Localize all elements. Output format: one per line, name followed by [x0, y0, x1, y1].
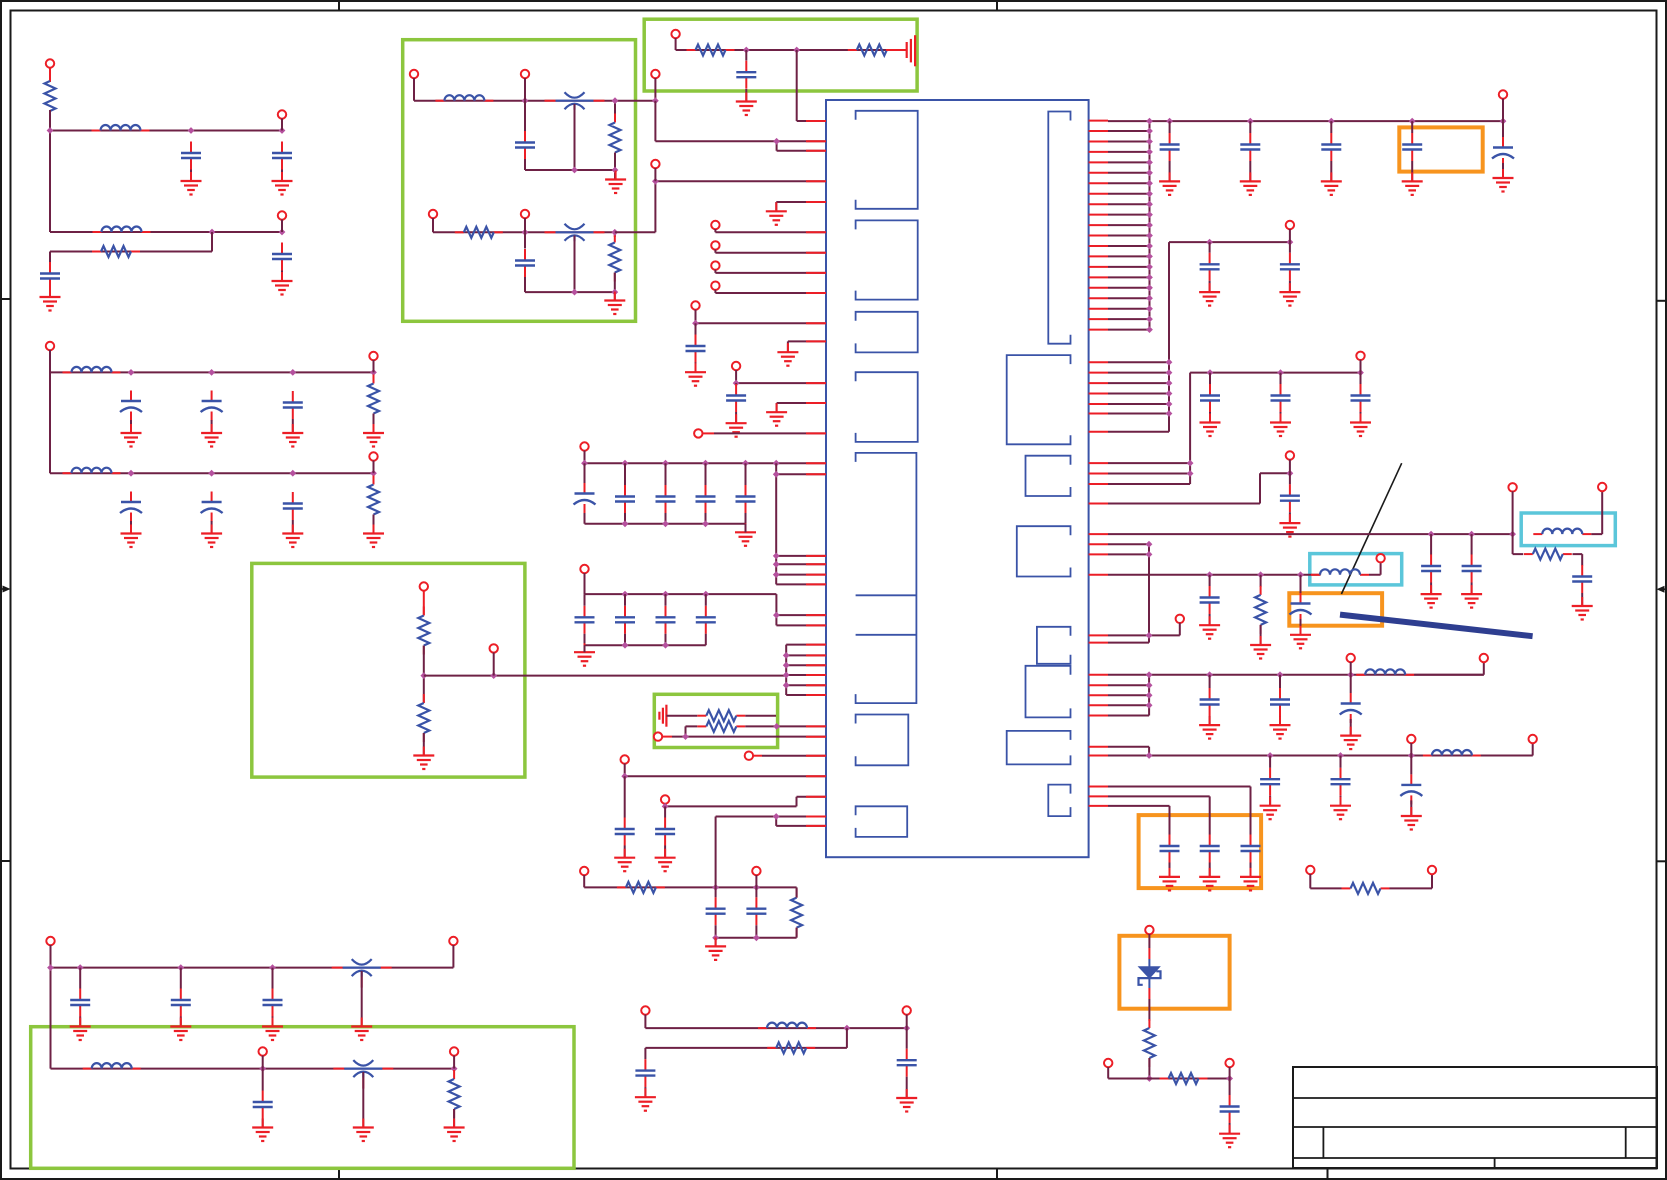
capacitor C15 [726, 384, 746, 412]
IC pin stub (left) [806, 644, 826, 646]
wire [654, 78, 656, 101]
IC pin stub (right) [1089, 361, 1108, 363]
capacitor C29 [635, 1059, 655, 1087]
IC pin stub (right) [1089, 203, 1108, 205]
port P43 [1176, 615, 1184, 623]
IC pin stub (right) [1089, 462, 1108, 464]
capacitor C30 [897, 1049, 917, 1077]
wire [1108, 694, 1149, 696]
node [1146, 541, 1153, 548]
wire [655, 101, 826, 151]
node [622, 591, 629, 598]
wire [664, 806, 666, 817]
node [612, 97, 619, 104]
node [1166, 380, 1173, 387]
ground [655, 849, 676, 872]
IC pin stub (right) [1089, 318, 1108, 320]
wire [1108, 130, 1150, 132]
wire [755, 887, 757, 937]
wire [1169, 863, 1171, 877]
wire [645, 1028, 847, 1059]
IC pin stub (right) [1089, 120, 1108, 122]
wire [614, 153, 616, 180]
capacitor C54 [1260, 768, 1280, 796]
orange highlight box 2 (polar cap) [1289, 593, 1382, 626]
wire [524, 218, 526, 232]
wire [211, 420, 213, 433]
node [571, 167, 578, 174]
node [662, 520, 669, 527]
node [1146, 180, 1153, 187]
zone tick left 1 [1, 298, 11, 300]
port P11 [521, 210, 529, 218]
IC U1 internal block L5 [856, 453, 917, 703]
capacitor C18 [656, 485, 676, 513]
wire [190, 170, 192, 182]
wire [50, 350, 374, 473]
resistor R2 [92, 246, 140, 257]
node [903, 1025, 910, 1032]
ground [726, 414, 747, 437]
wire [1260, 575, 1262, 587]
port P47 [1407, 735, 1415, 743]
capacitor C42 [1200, 384, 1220, 412]
wire [762, 755, 826, 757]
inductor L10 [1356, 669, 1414, 675]
wire (pin bus) [786, 645, 826, 695]
inductor L7 [83, 1063, 141, 1069]
wire [1209, 863, 1211, 877]
ground [121, 525, 142, 548]
wire [1209, 575, 1211, 625]
wire [51, 945, 454, 1069]
wire [574, 236, 576, 293]
wire [1108, 787, 1251, 835]
node [1408, 752, 1415, 759]
ground [1270, 414, 1291, 437]
port P53 [1225, 1059, 1233, 1067]
node [622, 460, 629, 467]
port P24 [490, 644, 498, 652]
ground [635, 1088, 656, 1111]
wire [1229, 1079, 1231, 1134]
ground [121, 424, 142, 447]
node [773, 612, 780, 619]
wire [745, 524, 747, 533]
capacitor C56 (polarized) [1400, 774, 1422, 804]
IC pin stub (left) [806, 180, 826, 182]
node [1409, 118, 1416, 125]
capacitor C43 [1271, 384, 1291, 412]
port P36 [450, 1047, 458, 1055]
node [662, 591, 669, 598]
ground [351, 1018, 372, 1041]
ground [353, 1119, 374, 1142]
node [571, 289, 578, 296]
node [279, 127, 286, 134]
IC pin stub (left) [806, 725, 826, 727]
wire [906, 1028, 908, 1049]
wire [906, 1015, 908, 1029]
wire [1108, 214, 1150, 216]
resistor R10 [418, 607, 429, 655]
green highlight box 1 (LC filters) [403, 40, 636, 322]
IC U1 outline [826, 100, 1089, 857]
IC U1 internal block L5 divider a [856, 594, 917, 596]
IC pin stub (right) [1089, 543, 1108, 545]
ground [181, 172, 202, 195]
node [773, 723, 780, 730]
node [289, 470, 296, 477]
node [1146, 149, 1153, 156]
port P44 [1376, 554, 1384, 562]
port P12 [651, 160, 659, 168]
wire [1108, 151, 1150, 153]
capacitor C27 [706, 897, 726, 925]
capacitor C39 (polarized) [1492, 137, 1514, 167]
IC pin stub (left) [806, 292, 826, 294]
node [1206, 671, 1213, 678]
node [1146, 232, 1153, 239]
wire [423, 733, 425, 756]
node [208, 470, 215, 477]
node [47, 127, 54, 134]
port P9 [651, 70, 659, 78]
capacitor C59 [1241, 835, 1261, 863]
capacitor C35 [1160, 133, 1180, 161]
wire [1108, 413, 1169, 415]
node [451, 1065, 458, 1072]
node [289, 369, 296, 376]
capacitor C9 (polarized) [201, 492, 223, 522]
node [1146, 118, 1153, 125]
node [783, 662, 790, 669]
ground [1401, 807, 1422, 830]
port P30 [752, 867, 760, 875]
ground [70, 1018, 91, 1041]
IC U1 internal block R4 [1017, 526, 1071, 576]
wire [1108, 287, 1150, 289]
wire [1179, 623, 1181, 636]
IC pin stub (left) [806, 555, 826, 557]
wire [614, 101, 616, 116]
wire [1108, 382, 1169, 384]
capacitor C12 [515, 249, 535, 277]
wire [1108, 372, 1169, 374]
node [1146, 702, 1153, 709]
wire [1289, 229, 1291, 242]
wire [584, 875, 796, 887]
IC pin stub (right) [1089, 704, 1108, 706]
title block row line 2 [1293, 1126, 1657, 1128]
wire [262, 1069, 264, 1128]
resistor R3 [368, 375, 379, 423]
node [1468, 531, 1475, 538]
node [662, 460, 669, 467]
wire [715, 290, 826, 293]
capacitor C21 [575, 606, 595, 634]
wire [574, 104, 576, 170]
feedthrough capacitor FT4 [333, 1060, 393, 1089]
wire [755, 875, 757, 887]
node [208, 369, 215, 376]
IC pin stub (right) [1089, 214, 1108, 216]
inductor L8 (cyan box) [1533, 529, 1591, 535]
wire [1108, 704, 1149, 706]
ground stub [788, 341, 826, 352]
node [1146, 138, 1153, 145]
ground [1330, 797, 1351, 820]
port P20 [694, 429, 702, 437]
wire [745, 715, 776, 717]
port P16 [711, 261, 719, 269]
IC U1 internal block L3 [856, 312, 918, 353]
IC pin stub (left) [806, 150, 826, 152]
ground [736, 93, 757, 116]
node [692, 320, 699, 327]
wire [524, 78, 526, 101]
wire [1229, 1067, 1231, 1079]
wire [1108, 242, 1290, 432]
node [1146, 169, 1153, 176]
port P37 [1499, 90, 1507, 98]
wire [1108, 675, 1484, 716]
wire [1360, 373, 1362, 423]
node [773, 471, 780, 478]
wire [1260, 625, 1262, 645]
node [1146, 316, 1153, 323]
node [1146, 682, 1153, 689]
wire [1481, 743, 1533, 756]
IC pin stub (left) [806, 462, 826, 464]
feedthrough capacitor FT3 [332, 959, 392, 988]
node [753, 934, 760, 941]
ground [777, 343, 798, 366]
capacitor C46 [1421, 555, 1441, 583]
wire [1148, 1014, 1150, 1021]
IC U1 internal block L5 divider b [856, 634, 917, 636]
node [622, 642, 629, 649]
ground [170, 1018, 191, 1041]
wire [1108, 297, 1150, 299]
port P35 [259, 1047, 267, 1055]
wire [1502, 99, 1504, 122]
green highlight box 4 (bias resistors) [654, 694, 777, 747]
IC pin stub (left) [806, 382, 826, 384]
ground [282, 424, 303, 447]
IC pin stub (left) [806, 654, 826, 656]
resistor R19 [1255, 586, 1266, 634]
wire [1108, 318, 1150, 320]
port P14 [711, 221, 719, 229]
resistor R15 [791, 889, 802, 937]
IC pin stub (right) [1089, 755, 1108, 757]
capacitor C17 [615, 485, 635, 513]
resistor R18 [1524, 549, 1572, 560]
capacitor C25 [615, 818, 635, 846]
title block outline [1293, 1067, 1657, 1168]
resistor R13 [697, 721, 745, 732]
wire [1108, 373, 1361, 484]
wire [1108, 361, 1169, 363]
ground [1340, 727, 1361, 750]
wire [1108, 806, 1170, 835]
node [370, 369, 377, 376]
wire (bottom rail) [585, 644, 706, 646]
node [128, 470, 135, 477]
IC pin stub (right) [1089, 193, 1108, 195]
zone tick bottom 2 [996, 1169, 998, 1180]
wire [1108, 329, 1150, 331]
centre arrow left [1, 588, 7, 590]
IC pin stub (left) [806, 684, 826, 686]
wire [1108, 182, 1150, 184]
resistor R9 [848, 45, 896, 56]
wire [672, 726, 826, 736]
capacitor C47 [1462, 555, 1482, 583]
ground [766, 403, 787, 426]
wire [614, 232, 616, 237]
IC pin stub (right) [1089, 786, 1108, 788]
ground [1270, 716, 1291, 739]
wire [1340, 756, 1342, 806]
node [1509, 531, 1516, 538]
node [612, 167, 619, 174]
resistor R4 [368, 476, 379, 524]
capacitor C2 [272, 142, 292, 170]
port P15 [711, 241, 719, 249]
ground [413, 747, 434, 770]
node [1146, 222, 1153, 229]
IC pin stub (left) [806, 473, 826, 475]
wire [1209, 373, 1211, 423]
wire [1269, 756, 1271, 806]
node [370, 470, 377, 477]
node [662, 803, 669, 810]
node [1146, 264, 1153, 271]
port P19 [732, 362, 740, 370]
node [1146, 253, 1153, 260]
capacitor C40 [1200, 253, 1220, 281]
wire [1108, 224, 1150, 226]
IC pin stub (right) [1089, 172, 1108, 174]
wire [1573, 554, 1583, 565]
wire (to IC) [716, 817, 826, 888]
node [783, 672, 790, 679]
title block cell divider 1 [1322, 1127, 1324, 1158]
node [783, 682, 790, 689]
node [209, 229, 216, 236]
wire [49, 290, 51, 297]
IC U1 internal block R1 [1048, 112, 1070, 344]
wire [664, 846, 666, 858]
node [1337, 752, 1344, 759]
wire [584, 463, 586, 524]
IC pin stub (right) [1089, 161, 1108, 163]
node [1146, 551, 1153, 558]
IC pin stub (right) [1089, 473, 1108, 475]
wire [1108, 235, 1150, 237]
IC pin stub (left) [806, 272, 826, 274]
capacitor C5 (polarized) [120, 391, 142, 421]
node [1146, 632, 1153, 639]
IC U1 internal block R8 [1048, 785, 1070, 817]
port P33 [46, 937, 54, 945]
wire [705, 463, 707, 524]
node [702, 520, 709, 527]
ground [444, 1119, 465, 1142]
port P51 [1145, 926, 1153, 934]
IC pin stub (right) [1089, 715, 1108, 717]
node [1500, 118, 1507, 125]
capacitor C3 [272, 243, 292, 271]
IC pin stub (right) [1089, 694, 1108, 696]
orange highlight box 4 (zener diode) [1119, 936, 1229, 1009]
IC pin stub (left) [806, 694, 826, 696]
IC pin stub (left) [806, 140, 826, 142]
wire [906, 1077, 908, 1098]
node [1166, 401, 1173, 408]
IC pin stub (right) [1089, 182, 1108, 184]
wire [1390, 874, 1433, 888]
annotation black line [1341, 463, 1401, 594]
inductor L1 [92, 125, 150, 131]
wire [1502, 121, 1504, 178]
port P42 [1598, 483, 1606, 491]
ground [1493, 169, 1514, 192]
wire [716, 887, 797, 937]
node [621, 773, 628, 780]
wire [1350, 662, 1352, 675]
node [1146, 305, 1153, 312]
node [1206, 571, 1213, 578]
capacitor C8 (polarized) [120, 492, 142, 522]
port P50 [1428, 866, 1436, 874]
ground [1321, 172, 1342, 195]
capacitor C34 [253, 1091, 273, 1119]
IC pin stub (right) [1089, 553, 1108, 555]
ground [363, 525, 384, 548]
node [77, 964, 84, 971]
wire [705, 594, 707, 645]
node [702, 591, 709, 598]
wire [49, 68, 51, 83]
wire [362, 1072, 364, 1128]
wire [281, 271, 283, 282]
capacitor C13 [736, 61, 756, 89]
wire [666, 715, 697, 717]
wire [1108, 1067, 1229, 1079]
IC pin stub (left) [806, 340, 826, 342]
wire [665, 797, 826, 807]
port P38 [1286, 221, 1294, 229]
node [773, 561, 780, 568]
node [1297, 571, 1304, 578]
capacitor C28 [746, 897, 766, 925]
wire [1591, 491, 1602, 534]
ground [1240, 868, 1261, 891]
node [1166, 369, 1173, 376]
ground [1240, 172, 1261, 195]
IC pin stub (right) [1089, 297, 1108, 299]
port P13 [671, 30, 679, 38]
wire [776, 463, 826, 584]
IC pin stub (left) [806, 201, 826, 203]
IC pin stub (right) [1089, 141, 1108, 143]
IC pin stub (right) [1089, 634, 1108, 636]
IC pin stub (left) [806, 252, 826, 254]
node [1357, 369, 1364, 376]
